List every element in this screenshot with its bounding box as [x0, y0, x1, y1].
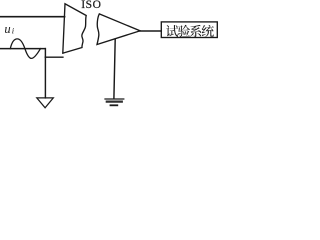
ground: signal ground open triangle	[37, 98, 54, 108]
wire: branch to isolator lower-left corner	[45, 56, 63, 58]
wire: amplifier ground lead	[114, 39, 115, 99]
isolation amplifier U1: right section (triangle with wavy barrier edge)	[97, 14, 140, 45]
box: test system	[161, 22, 217, 38]
wire: output to test system box	[140, 30, 161, 32]
label: 试验系统 (test system) text	[166, 25, 214, 37]
ground: earth ground bar 3	[111, 104, 118, 106]
svg-text:u: u	[4, 22, 10, 36]
ground: earth ground bar 1	[105, 98, 124, 100]
wire: vertical drop from source to signal ground	[44, 49, 46, 98]
wire: sine source axis / lower input lead	[0, 48, 45, 50]
isolation amplifier U1: left section (quad with wavy barrier edge)	[63, 4, 86, 53]
svg-text:ISO: ISO	[81, 0, 101, 11]
wire: top input wire to isolator	[0, 16, 65, 18]
svg-text:i: i	[12, 25, 15, 35]
ground: earth ground bar 2	[107, 100, 122, 102]
source ui: sine wave symbol	[10, 39, 40, 59]
